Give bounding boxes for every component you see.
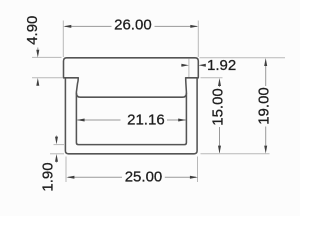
internal shelf (diffuser seat) across cavity: [76, 93, 186, 97]
extension line (top): [201, 77, 223, 79]
svg-text:21.16: 21.16: [127, 112, 165, 129]
svg-text:25.00: 25.00: [125, 169, 163, 186]
leader with outside arrows: [37, 48, 39, 51]
inner cavity walls and bottom: [76, 78, 186, 144]
svg-text:1.92: 1.92: [207, 57, 236, 74]
arrows outside: [56, 136, 58, 138]
svg-text:19.00: 19.00: [256, 87, 273, 125]
svg-text:4.90: 4.90: [24, 16, 41, 45]
dim line: [65, 25, 112, 27]
svg-text:1.90: 1.90: [40, 162, 57, 191]
svg-text:15.00: 15.00: [209, 88, 226, 126]
svg-text:26.00: 26.00: [114, 16, 152, 33]
arrows: [181, 64, 183, 66]
dim line: [219, 86, 221, 87]
flange (top bar): top surface, outer edges, partial undersides: [64, 58, 199, 78]
dim line: [68, 176, 122, 178]
dim line: [265, 66, 267, 86]
extension lines: [200, 57, 286, 59]
extension line: [188, 59, 190, 77]
profile outline (U-channel cross section): [64, 58, 199, 154]
extension lines: [54, 144, 65, 146]
extension lines: [62, 21, 64, 58]
extension lines: [65, 157, 67, 183]
extension lines: [32, 56, 62, 58]
body side walls and bottom: [65, 78, 197, 154]
